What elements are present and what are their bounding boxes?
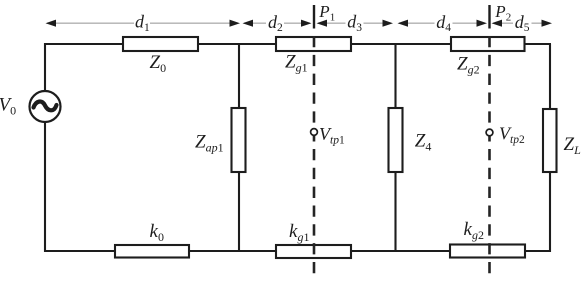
wire shunt stub node 2 upper	[394, 44, 396, 108]
wire left above source	[44, 43, 46, 91]
dimension arrow d5 left	[492, 20, 503, 27]
resistor Zg2	[451, 37, 525, 51]
wire bottom kg2 to right corner	[525, 250, 551, 252]
wire left below source	[44, 122, 46, 252]
wire shunt stub node 2 lower	[394, 172, 396, 251]
resistor kg1	[276, 245, 351, 258]
wire top Zg1 to Zg2	[351, 43, 451, 45]
dimension line d3	[318, 22, 391, 24]
resistor k0	[115, 245, 189, 258]
dimension arrow d2 left	[243, 20, 254, 27]
wire bottom left	[44, 250, 115, 252]
wire top left	[45, 43, 123, 45]
resistor Z0	[123, 37, 198, 51]
dimension arrow d1 right	[230, 20, 241, 27]
dimension arrow d5 right	[542, 20, 553, 27]
node P1 tick	[313, 5, 315, 29]
wire right above ZL	[549, 44, 551, 109]
node P2 dashed line	[488, 36, 491, 275]
wire top Z0 to Zg1	[198, 43, 276, 45]
dimension arrow d3 right	[383, 20, 394, 27]
resistor Zap1	[232, 108, 246, 172]
wire bottom k0 to kg1	[189, 250, 276, 252]
node P1 dashed line	[313, 36, 316, 275]
wire bottom kg1 to kg2	[351, 250, 450, 252]
resistor ZL	[543, 109, 557, 172]
dimension arrow d4 right	[477, 20, 488, 27]
source V0	[30, 91, 61, 122]
dimension line d5	[493, 22, 550, 24]
resistor Zg1	[276, 37, 351, 51]
resistor Z4	[389, 108, 403, 172]
wire shunt stub node 1 lower	[238, 172, 240, 251]
test point Vtp1	[311, 129, 318, 136]
dimension arrow d4 left	[398, 20, 409, 27]
dimension line d4	[399, 22, 485, 24]
dimension line d1	[47, 22, 238, 24]
node P2 tick	[488, 5, 490, 29]
test point Vtp2	[486, 129, 493, 136]
dimension arrow d2 right	[301, 20, 312, 27]
dimension arrow d1 left	[46, 20, 57, 27]
wire shunt stub node 1 upper	[238, 44, 240, 108]
resistor kg2	[450, 245, 525, 258]
wire top Zg2 to right corner	[524, 43, 551, 45]
wire right below ZL	[549, 172, 551, 252]
dimension arrow d3 left	[317, 20, 328, 27]
dimension line d2	[244, 22, 310, 24]
